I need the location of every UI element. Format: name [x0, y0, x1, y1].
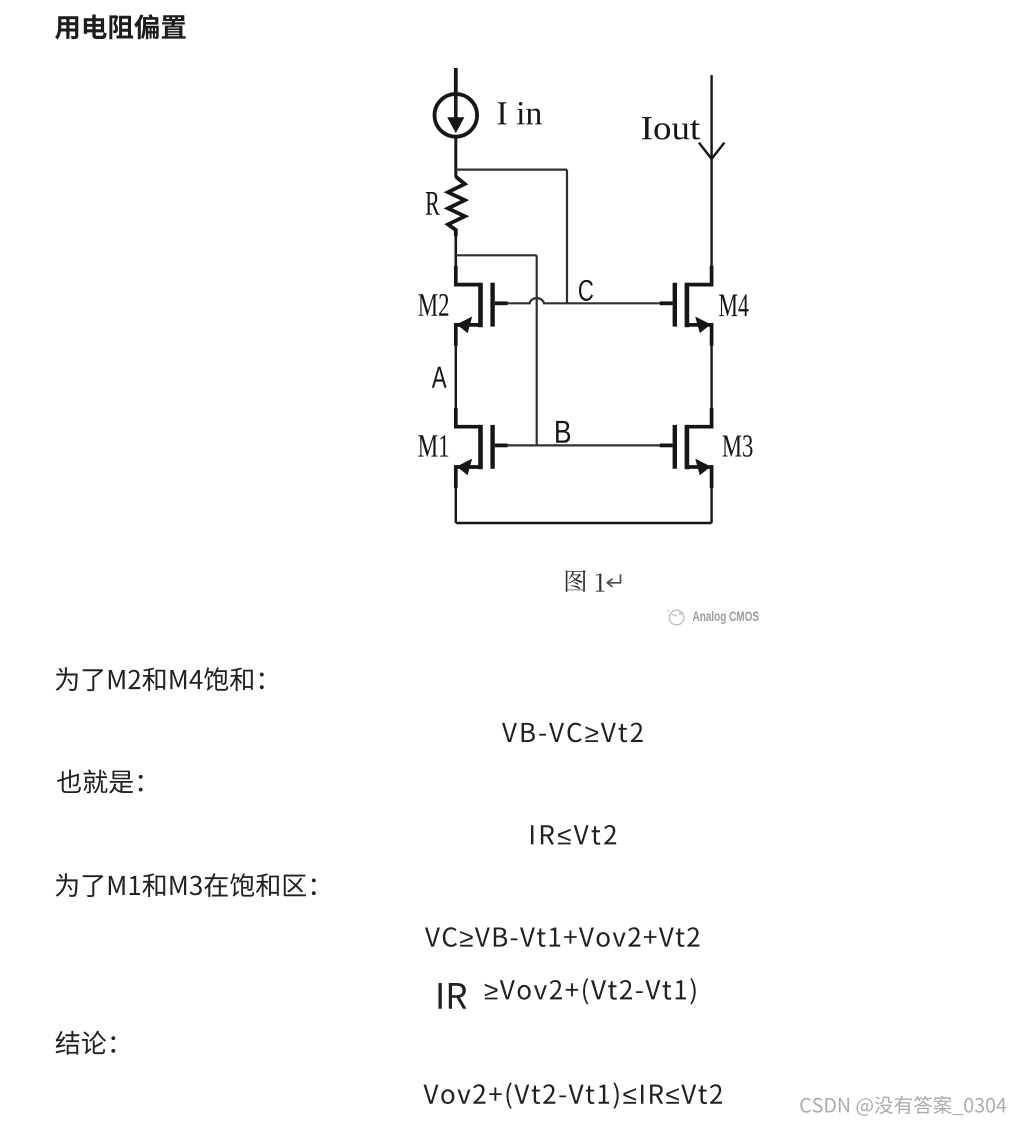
wire Iout vertical: [710, 75, 712, 270]
wire current source to node junction: [454, 137, 457, 177]
transistor M2 source lead: [456, 325, 481, 346]
transistor M1 source arrow: [457, 459, 473, 476]
wire resistor to M2 drain: [454, 234, 457, 270]
title 用电阻偏置: [55, 14, 186, 39]
transistor M4 channel bar: [685, 283, 690, 327]
formula IR<=Vt2: [531, 825, 616, 845]
label R: [426, 192, 440, 215]
node B label: [556, 421, 570, 443]
formula IR large: [439, 983, 467, 1009]
wire M3 source to bottom rail: [710, 481, 712, 523]
transistor M2 channel bar: [478, 283, 483, 327]
Iout arrowhead: [699, 143, 725, 159]
transistor M1 source lead: [456, 467, 481, 488]
wire B net vertical: [536, 255, 538, 445]
formula VC>=VB-Vt1+Vov2+Vt2: [425, 927, 699, 947]
transistor M1 drain lead: [456, 408, 481, 427]
label Iout: [642, 117, 700, 140]
wire M1 source to bottom rail: [455, 481, 457, 523]
label M1: [418, 435, 448, 456]
wire C net vertical down to gate line: [566, 170, 568, 304]
text line 4: [56, 1031, 116, 1055]
svg-text:Analog CMOS: Analog CMOS: [693, 609, 760, 624]
transistor M3 gate lead: [660, 443, 673, 447]
caption return mark: [607, 574, 620, 587]
caption 1: [596, 574, 605, 592]
wire gate line M2-M4 with jump over B net: [507, 298, 660, 303]
transistor M2 source arrow: [457, 317, 473, 334]
label Iin: [498, 102, 542, 124]
text line 2: [57, 770, 143, 794]
resistor R: [448, 177, 465, 236]
transistor M3 channel bar: [685, 425, 690, 469]
transistor M3 gate bar: [673, 425, 677, 469]
transistor M1 gate bar: [490, 425, 494, 469]
formula >=Vov2+(Vt2-Vt1): [485, 978, 696, 1004]
text line 1: [56, 667, 264, 691]
transistor M4 gate lead: [660, 301, 673, 305]
wire gate line M1-M3 (node B): [507, 444, 660, 446]
transistor M2 gate bar: [490, 283, 494, 327]
caption 图: [566, 570, 586, 592]
transistor M1 gate lead: [495, 443, 508, 447]
label M2: [418, 294, 448, 316]
current source arrow: [454, 94, 458, 119]
wire junction to C net (horizontal): [456, 169, 567, 171]
text line 3: [56, 873, 316, 897]
wire node A (M2 source to M1 drain): [455, 339, 457, 412]
transistor M4 gate bar: [673, 283, 677, 327]
transistor M3 source arrow: [695, 459, 711, 476]
current source Iin: [435, 94, 478, 137]
transistor M3 drain lead: [687, 408, 712, 427]
watermark CSDN: [800, 1096, 1006, 1116]
transistor M4 drain lead: [687, 266, 712, 285]
bottom rail: [456, 522, 712, 524]
wire junction to B net (horizontal): [456, 254, 537, 256]
formula conclusion: [424, 1082, 723, 1108]
watermark logo: [668, 610, 684, 625]
node C label: [579, 280, 593, 301]
label M3: [723, 435, 753, 457]
transistor M4 source lead: [687, 325, 712, 346]
transistor M3 source lead: [687, 467, 712, 488]
formula VB-VC>=Vt2: [502, 723, 643, 743]
transistor M1 channel bar: [478, 425, 483, 469]
node A label: [432, 367, 447, 388]
transistor M2 gate lead: [495, 301, 508, 305]
label M4: [719, 294, 748, 316]
transistor M4 source arrow: [695, 317, 711, 334]
wire M4 source to M3 drain: [710, 339, 712, 412]
wire Iin top lead: [454, 68, 458, 94]
transistor M2 drain lead: [456, 266, 481, 285]
